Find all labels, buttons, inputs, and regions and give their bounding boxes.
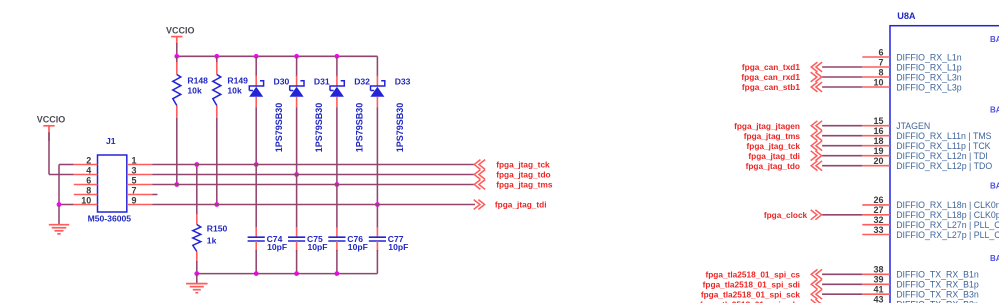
junction R150 row1 bbox=[194, 162, 199, 167]
off-page connector fpga_tla2518_01_spi_sdo bbox=[700, 299, 822, 303]
wire D30 row down to C74 bbox=[255, 165, 257, 229]
pin 15 JTAGEN of U8A bbox=[862, 116, 930, 131]
junction D31 at row bbox=[294, 172, 299, 177]
junction on VCCIO bus at D30 bbox=[254, 54, 259, 59]
wire ground stub (bottom) bbox=[196, 274, 198, 284]
resistor R149 10k bbox=[213, 56, 248, 118]
wire row5 net fpga_jtag_tms bbox=[152, 184, 474, 186]
svg-text:fpga_jtag_tck: fpga_jtag_tck bbox=[747, 141, 801, 151]
pin 18 DIFFIO_RX_L11p | TCK of U8A bbox=[862, 136, 990, 151]
svg-text:1PS79SB30: 1PS79SB30 bbox=[355, 103, 365, 153]
svg-text:fpga_jtag_tms: fpga_jtag_tms bbox=[496, 180, 553, 190]
svg-text:6: 6 bbox=[86, 176, 91, 186]
off-page connector fpga_tla2518_01_spi_cs bbox=[705, 269, 822, 279]
junction R148 row5 bbox=[174, 182, 179, 187]
capacitor C75 10pF bbox=[288, 234, 328, 252]
wire net fpga_jtag_tdi bbox=[822, 155, 862, 157]
svg-text:10pF: 10pF bbox=[267, 242, 287, 252]
wire top VCCIO bus bbox=[177, 55, 378, 57]
svg-text:7: 7 bbox=[132, 186, 137, 196]
svg-text:32: 32 bbox=[873, 215, 883, 225]
svg-text:R150: R150 bbox=[207, 224, 228, 234]
off-page connector fpga_jtag_tck bbox=[474, 160, 550, 170]
wire D32 anode down to row bbox=[336, 108, 338, 185]
svg-text:33: 33 bbox=[873, 225, 883, 235]
svg-text:16: 16 bbox=[873, 126, 883, 136]
pin 7 DIFFIO_RX_L1p of U8A bbox=[862, 57, 962, 72]
svg-text:9: 9 bbox=[132, 196, 137, 206]
svg-text:DIFFIO_RX_L1p: DIFFIO_RX_L1p bbox=[896, 62, 962, 72]
svg-text:fpga_jtag_tck: fpga_jtag_tck bbox=[496, 160, 550, 170]
svg-text:fpga_tla2518_01_spi_sck: fpga_tla2518_01_spi_sck bbox=[701, 289, 801, 299]
pin 16 DIFFIO_RX_L11n | TMS of U8A bbox=[862, 126, 991, 141]
svg-text:DIFFIO_RX_L12p | TDO: DIFFIO_RX_L12p | TDO bbox=[896, 161, 992, 171]
junction on VCCIO bus at D32 bbox=[335, 54, 340, 59]
svg-text:15: 15 bbox=[873, 116, 883, 126]
svg-text:DIFFIO_RX_L18n | CLK0n0: DIFFIO_RX_L18n | CLK0n0 bbox=[896, 200, 999, 210]
pin 6 DIFFIO_RX_L1n of U8A bbox=[862, 47, 962, 62]
svg-text:fpga_jtag_jtagen: fpga_jtag_jtagen bbox=[734, 121, 800, 131]
wire pin2 to ground net bbox=[59, 164, 74, 166]
svg-text:10: 10 bbox=[873, 77, 883, 87]
svg-text:43: 43 bbox=[873, 295, 883, 303]
svg-text:DIFFIO_TX_RX_B3n: DIFFIO_TX_RX_B3n bbox=[896, 290, 979, 300]
svg-text:DIFFIO_RX_L11n | TMS: DIFFIO_RX_L11n | TMS bbox=[896, 131, 991, 141]
wire D33 anode down to row bbox=[376, 108, 378, 205]
svg-text:39: 39 bbox=[873, 275, 883, 285]
svg-text:20: 20 bbox=[873, 156, 883, 166]
svg-text:DIFFIO_TX_RX_B1p: DIFFIO_TX_RX_B1p bbox=[896, 280, 979, 290]
wire R148 to row5 bbox=[176, 118, 178, 185]
wire net fpga_jtag_tdo bbox=[822, 165, 862, 167]
wire VCCIO left vertical to pin 4 row bbox=[48, 133, 50, 175]
svg-text:D30: D30 bbox=[274, 76, 290, 86]
off-page connector fpga_jtag_tms bbox=[474, 180, 553, 190]
ground symbol (bottom) bbox=[186, 284, 208, 293]
junction on VCCIO bus at R148 bbox=[174, 54, 179, 59]
svg-text:3: 3 bbox=[132, 166, 137, 176]
wire net fpga_tla2518_01_spi_sdi bbox=[822, 283, 862, 285]
diode D30 1PS79SB30 bbox=[249, 56, 289, 152]
svg-text:8: 8 bbox=[86, 186, 91, 196]
svg-text:DIFFIO_RX_L3n: DIFFIO_RX_L3n bbox=[896, 72, 962, 82]
off-page connector fpga_jtag_tdi bbox=[748, 151, 821, 161]
off-page connector fpga_can_txd1 bbox=[742, 62, 822, 72]
wire net fpga_tla2518_01_spi_sck bbox=[822, 293, 862, 295]
svg-text:7: 7 bbox=[878, 57, 883, 67]
pin 19 DIFFIO_RX_L12n | TDI of U8A bbox=[862, 146, 987, 161]
off-page connector fpga_jtag_tdi bbox=[474, 200, 547, 210]
svg-text:fpga_jtag_tdo: fpga_jtag_tdo bbox=[496, 170, 550, 180]
capacitor C74 10pF bbox=[248, 234, 288, 252]
capacitor C77 10pF bbox=[369, 234, 409, 252]
svg-text:fpga_jtag_tdi: fpga_jtag_tdi bbox=[495, 200, 547, 210]
svg-text:DIFFIO_RX_L27n | PLL_CL: DIFFIO_RX_L27n | PLL_CL bbox=[896, 220, 999, 230]
pin 33 DIFFIO_RX_L27p | PLL_CL of U8A bbox=[862, 225, 999, 240]
svg-text:R149: R149 bbox=[227, 76, 248, 86]
svg-text:BANK: BANK bbox=[990, 106, 999, 115]
svg-text:1k: 1k bbox=[207, 235, 217, 245]
off-page connector fpga_can_rxd1 bbox=[741, 72, 821, 82]
wire row9 net fpga_jtag_tdi bbox=[152, 204, 475, 206]
wire D33 row down to C77 bbox=[376, 205, 378, 229]
connector J1 M50-36005 bbox=[74, 136, 152, 224]
wire net fpga_clock bbox=[822, 214, 862, 216]
svg-text:10pF: 10pF bbox=[348, 242, 368, 252]
wire net fpga_jtag_tck bbox=[822, 145, 862, 147]
resistor R150 1k bbox=[193, 214, 228, 262]
svg-text:BANK: BANK bbox=[990, 182, 999, 191]
off-page connector fpga_jtag_tdo bbox=[746, 161, 823, 171]
wire net fpga_can_stb1 bbox=[822, 86, 862, 88]
off-page connector fpga_jtag_tms bbox=[744, 131, 822, 141]
pin 32 DIFFIO_RX_L27n | PLL_CL of U8A bbox=[862, 215, 999, 230]
svg-text:4: 4 bbox=[86, 166, 91, 176]
wire R150 to ground bus bbox=[196, 261, 198, 274]
svg-text:DIFFIO_RX_L18p | CLK0p0: DIFFIO_RX_L18p | CLK0p0 bbox=[896, 210, 999, 220]
junction R150 ground bus bbox=[194, 271, 199, 276]
diode D33 1PS79SB30 bbox=[370, 56, 410, 152]
ground symbol (J1) bbox=[49, 225, 69, 234]
svg-text:1PS79SB30: 1PS79SB30 bbox=[314, 103, 324, 153]
svg-text:41: 41 bbox=[873, 285, 883, 295]
svg-text:VCCIO: VCCIO bbox=[166, 26, 195, 36]
junction C76 ground bus bbox=[335, 271, 340, 276]
wire D31 anode down to row bbox=[296, 108, 298, 175]
wire row1 down to R150 bbox=[196, 165, 198, 216]
wire bottom ground bus bbox=[197, 273, 378, 275]
svg-text:10k: 10k bbox=[187, 86, 202, 96]
wire D32 row down to C76 bbox=[336, 185, 338, 229]
svg-text:DIFFIO_TX_RX_B1n: DIFFIO_TX_RX_B1n bbox=[896, 270, 979, 280]
svg-text:D33: D33 bbox=[395, 76, 411, 86]
pin 43 DIFFIO_TX_RX_B3p of U8A bbox=[862, 295, 979, 303]
off-page connector fpga_jtag_tdo bbox=[474, 170, 550, 180]
off-page connector fpga_tla2518_01_spi_sdi bbox=[703, 279, 822, 289]
wire C74 to ground bus bbox=[255, 241, 257, 251]
pin 8 DIFFIO_RX_L3n of U8A bbox=[862, 67, 962, 82]
wire net fpga_can_txd1 bbox=[822, 66, 862, 68]
svg-text:fpga_jtag_tdo: fpga_jtag_tdo bbox=[746, 161, 800, 171]
svg-text:26: 26 bbox=[873, 195, 883, 205]
pin 10 DIFFIO_RX_L3p of U8A bbox=[862, 77, 962, 92]
svg-text:BANK: BANK bbox=[990, 254, 999, 263]
svg-text:1PS79SB30: 1PS79SB30 bbox=[274, 103, 284, 153]
svg-text:6: 6 bbox=[878, 47, 883, 57]
svg-text:8: 8 bbox=[878, 67, 883, 77]
pin 26 DIFFIO_RX_L18n | CLK0n0 of U8A bbox=[862, 195, 999, 210]
pin 39 DIFFIO_TX_RX_B1p of U8A bbox=[862, 275, 979, 290]
svg-text:10pF: 10pF bbox=[388, 242, 408, 252]
wire D31 row down to C75 bbox=[296, 175, 298, 229]
power symbol VCCIO (top, net VCCIO) bbox=[166, 26, 195, 57]
svg-text:M50-36005: M50-36005 bbox=[88, 213, 132, 223]
junction D32 at row bbox=[335, 182, 340, 187]
svg-text:U8A: U8A bbox=[897, 11, 916, 21]
wire C75 to ground bus bbox=[296, 241, 298, 251]
off-page connector fpga_jtag_tck bbox=[747, 141, 823, 151]
svg-text:D32: D32 bbox=[354, 76, 370, 86]
svg-text:JTAGEN: JTAGEN bbox=[896, 121, 930, 131]
svg-text:1PS79SB30: 1PS79SB30 bbox=[395, 103, 405, 153]
svg-text:10k: 10k bbox=[227, 86, 242, 96]
diode D31 1PS79SB30 bbox=[290, 56, 330, 152]
wire net fpga_jtag_tms bbox=[822, 135, 862, 137]
wire net fpga_tla2518_01_spi_cs bbox=[822, 273, 862, 275]
wire row7 stub (pin 7 J1) bbox=[152, 194, 157, 196]
svg-text:fpga_jtag_tdi: fpga_jtag_tdi bbox=[748, 151, 800, 161]
svg-text:D31: D31 bbox=[314, 76, 330, 86]
power symbol VCCIO (left, net VCCIO) bbox=[37, 115, 66, 141]
svg-text:J1: J1 bbox=[106, 136, 116, 146]
junction C74 ground bus bbox=[254, 271, 259, 276]
off-page connector fpga_can_stb1 bbox=[742, 82, 822, 92]
svg-text:5: 5 bbox=[132, 176, 137, 186]
wire ground stub (J1) bbox=[58, 205, 60, 225]
junction on VCCIO bus at R149 bbox=[214, 54, 219, 59]
svg-text:fpga_tla2518_01_spi_cs: fpga_tla2518_01_spi_cs bbox=[705, 270, 800, 280]
svg-text:DIFFIO_RX_L12n | TDI: DIFFIO_RX_L12n | TDI bbox=[896, 151, 988, 161]
diode D32 1PS79SB30 bbox=[330, 56, 370, 152]
svg-text:18: 18 bbox=[873, 136, 883, 146]
svg-text:fpga_tla2518_01_spi_sdi: fpga_tla2518_01_spi_sdi bbox=[703, 280, 800, 290]
wire D30 anode down to row bbox=[255, 108, 257, 165]
junction D33 at row bbox=[375, 202, 380, 207]
junction ground net at pin10 row bbox=[57, 202, 62, 207]
svg-text:DIFFIO_TX_RX_B3p: DIFFIO_TX_RX_B3p bbox=[896, 300, 979, 303]
FPGA symbol U8A bbox=[890, 11, 999, 303]
off-page connector fpga_clock bbox=[764, 210, 822, 220]
pin 38 DIFFIO_TX_RX_B1n of U8A bbox=[862, 265, 979, 280]
svg-text:fpga_jtag_tms: fpga_jtag_tms bbox=[744, 131, 801, 141]
svg-text:DIFFIO_RX_L1n: DIFFIO_RX_L1n bbox=[896, 52, 962, 62]
wire C77 to ground bus bbox=[376, 241, 378, 251]
svg-text:10: 10 bbox=[81, 196, 91, 206]
wire net fpga_can_rxd1 bbox=[822, 76, 862, 78]
wire pin10 to ground net bbox=[59, 204, 74, 206]
svg-text:fpga_tla2518_01_spi_sdo: fpga_tla2518_01_spi_sdo bbox=[700, 299, 800, 303]
svg-text:10pF: 10pF bbox=[308, 242, 328, 252]
svg-text:DIFFIO_RX_L11p | TCK: DIFFIO_RX_L11p | TCK bbox=[896, 141, 990, 151]
svg-text:DIFFIO_RX_L3p: DIFFIO_RX_L3p bbox=[896, 82, 962, 92]
svg-text:2: 2 bbox=[86, 156, 91, 166]
wire row3 net fpga_jtag_tdo bbox=[152, 174, 474, 176]
svg-text:19: 19 bbox=[873, 146, 883, 156]
off-page connector fpga_tla2518_01_spi_sck bbox=[701, 289, 822, 299]
pin 20 DIFFIO_RX_L12p | TDO of U8A bbox=[862, 156, 992, 171]
junction C75 ground bus bbox=[294, 271, 299, 276]
svg-text:BANK: BANK bbox=[990, 35, 999, 44]
junction D30 at row bbox=[254, 162, 259, 167]
svg-text:27: 27 bbox=[873, 205, 883, 215]
wire R149 to row9 bbox=[216, 118, 218, 205]
svg-text:fpga_can_rxd1: fpga_can_rxd1 bbox=[741, 72, 800, 82]
svg-text:fpga_can_txd1: fpga_can_txd1 bbox=[742, 62, 800, 72]
junction on VCCIO bus at D31 bbox=[294, 54, 299, 59]
svg-text:VCCIO: VCCIO bbox=[37, 115, 66, 125]
junction R149 row9 bbox=[214, 202, 219, 207]
off-page connector fpga_jtag_jtagen bbox=[734, 121, 822, 131]
pin 41 DIFFIO_TX_RX_B3n of U8A bbox=[862, 285, 979, 300]
wire net fpga_jtag_jtagen bbox=[822, 125, 862, 127]
svg-text:fpga_can_stb1: fpga_can_stb1 bbox=[742, 82, 800, 92]
svg-text:fpga_clock: fpga_clock bbox=[764, 210, 808, 220]
svg-text:38: 38 bbox=[873, 265, 883, 275]
pin 27 DIFFIO_RX_L18p | CLK0p0 of U8A bbox=[862, 205, 999, 220]
svg-text:DIFFIO_RX_L27p | PLL_CL: DIFFIO_RX_L27p | PLL_CL bbox=[896, 230, 999, 240]
capacitor C76 10pF bbox=[328, 234, 368, 252]
svg-text:R148: R148 bbox=[187, 76, 208, 86]
resistor R148 10k bbox=[173, 56, 208, 118]
wire row1 net fpga_jtag_tck bbox=[152, 164, 474, 166]
wire C76 to ground bus bbox=[336, 241, 338, 251]
svg-text:1: 1 bbox=[132, 156, 137, 166]
